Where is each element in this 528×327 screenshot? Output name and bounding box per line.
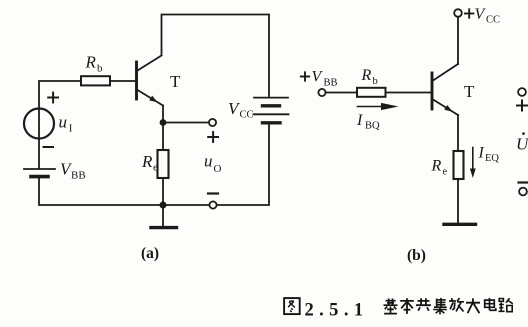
label T (b) — [464, 82, 475, 101]
terminal: (a) output + — [209, 119, 216, 126]
svg-text:R: R — [141, 152, 153, 171]
svg-text:I: I — [69, 123, 73, 135]
node: (a) emitter output node — [160, 119, 167, 126]
label + of VBB (b) — [301, 72, 309, 80]
value label U (output voltage, clipped at edge) — [516, 132, 528, 153]
ground (a) — [151, 205, 177, 228]
wire: (a) bottom ground rail left section — [38, 139, 40, 168]
value label Rb (a) — [85, 53, 104, 75]
svg-text:EQ: EQ — [485, 153, 499, 164]
caption char: gong (common) — [416, 298, 431, 310]
terminal: (b) output - — [519, 188, 527, 196]
resistor Re (a) — [158, 150, 169, 178]
battery Vcc (a) — [254, 98, 289, 123]
value label uI — [59, 113, 73, 135]
svg-text:I: I — [478, 145, 485, 162]
svg-text:CC: CC — [486, 15, 500, 26]
label + of uI — [48, 93, 58, 103]
wire: (a) Re bottom to ground rail — [162, 178, 164, 205]
value label IEQ — [478, 145, 500, 165]
terminal: (b) output + — [518, 88, 526, 96]
value label VBB — [60, 160, 86, 182]
value label Rb (b) — [361, 67, 378, 87]
svg-text:(a): (a) — [141, 245, 159, 262]
node: (a) ground rail junction — [160, 202, 167, 209]
label - of uO — [208, 192, 218, 194]
wire: (a) top rail from collector up and across to Vcc battery — [162, 15, 270, 97]
svg-text:U: U — [516, 135, 528, 154]
label (b) — [407, 247, 426, 264]
svg-text:u: u — [204, 152, 213, 171]
resistor Rb (b) — [357, 88, 386, 97]
battery VBB (a) — [24, 169, 55, 177]
arrow IEQ — [470, 148, 476, 179]
svg-text:T: T — [170, 72, 181, 91]
value label Re (b) — [431, 158, 448, 178]
svg-text:BB: BB — [71, 170, 86, 182]
terminal: (a) output - — [209, 201, 216, 208]
wire: (a) input loop left vertical and base wire — [39, 81, 135, 109]
caption char: lu (circuit-road) — [499, 298, 513, 311]
svg-text:u: u — [59, 113, 68, 132]
svg-text:e: e — [153, 162, 158, 174]
caption char: dian (electric) — [485, 298, 496, 310]
label - of output (b) — [519, 181, 528, 183]
svg-text:(b): (b) — [407, 247, 426, 264]
svg-text:V: V — [312, 69, 324, 86]
svg-text:e: e — [443, 167, 448, 178]
value label Vcc — [228, 99, 254, 121]
svg-text:R: R — [361, 67, 372, 84]
wire: (a) node down into Re — [162, 123, 164, 151]
wire: (b) emitter down to Re — [457, 115, 459, 151]
wire: (a) battery bottom down to ground rail — [214, 125, 269, 206]
svg-text:CC: CC — [240, 110, 254, 121]
wire: (a) emitter down to output node — [162, 106, 164, 123]
svg-text:R: R — [85, 53, 97, 72]
wire: (b) base wire from terminal to transistor — [326, 92, 431, 94]
caption char: ben (root) — [400, 298, 414, 314]
svg-text:T: T — [464, 82, 475, 101]
resistor Re (b) — [454, 151, 464, 179]
caption char: ji (base) — [384, 299, 398, 314]
terminal: (b) +VBB input — [318, 89, 325, 96]
label + of output (b) — [517, 101, 527, 111]
source uI (circle) — [24, 109, 54, 139]
value label uO — [204, 152, 222, 176]
caption number 2.5.1 — [305, 301, 369, 321]
caption char: tu (figure) — [284, 298, 300, 314]
caption char: ji (collect) — [433, 298, 447, 315]
label + of Vcc (b) — [465, 9, 473, 17]
transistor T (b) — [432, 64, 458, 115]
svg-text:BQ: BQ — [365, 121, 380, 132]
svg-text:V: V — [475, 6, 487, 23]
svg-text:b: b — [373, 76, 378, 87]
ground (b) — [444, 223, 476, 226]
caption: figure number and Chinese title — [284, 298, 513, 321]
terminal: (b) +Vcc supply — [454, 9, 462, 17]
label T (a) — [170, 72, 181, 91]
svg-text:I: I — [356, 112, 363, 129]
svg-text:b: b — [97, 63, 103, 75]
svg-text:R: R — [431, 158, 442, 175]
wire: (a) from VBB down then right along bottom to Re foot — [39, 178, 212, 205]
resistor Rb (a) — [81, 76, 110, 85]
caption char: fang (amplify-release) — [449, 298, 464, 311]
wire: (a) output node to + terminal — [163, 122, 209, 124]
wire: (b) Re bottom to ground — [457, 179, 459, 223]
value label Vcc (b) — [475, 6, 501, 26]
svg-text:2.5.1: 2.5.1 — [305, 301, 369, 321]
value label VBB (b) — [312, 69, 338, 89]
caption char: da (big) — [466, 298, 480, 313]
label - of uI — [44, 146, 54, 148]
label (a) — [141, 245, 159, 262]
svg-text:BB: BB — [324, 78, 338, 89]
svg-text:O: O — [214, 163, 222, 175]
wire: (b) Vcc down to collector — [457, 17, 459, 64]
transistor T (a) — [137, 56, 164, 106]
label + of uO — [208, 132, 218, 142]
value label IBQ — [356, 112, 380, 132]
arrow IBQ — [358, 103, 399, 110]
value label Re (a) — [141, 152, 158, 174]
